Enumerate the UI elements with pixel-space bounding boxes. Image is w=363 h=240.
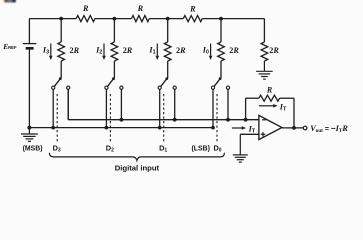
svg-text:R: R xyxy=(189,5,196,14)
svg-text:2R: 2R xyxy=(229,46,239,55)
svg-text:Digital input: Digital input xyxy=(115,163,160,172)
svg-text:2R: 2R xyxy=(123,46,133,55)
svg-text:(LSB): (LSB) xyxy=(192,145,210,152)
svg-text:2R: 2R xyxy=(269,46,279,55)
svg-text:R: R xyxy=(82,4,89,13)
svg-text:(MSB): (MSB) xyxy=(23,145,43,152)
svg-text:R: R xyxy=(137,4,144,13)
svg-text:2R: 2R xyxy=(176,46,186,55)
svg-text:R: R xyxy=(266,86,273,95)
svg-text:2R: 2R xyxy=(70,46,80,55)
